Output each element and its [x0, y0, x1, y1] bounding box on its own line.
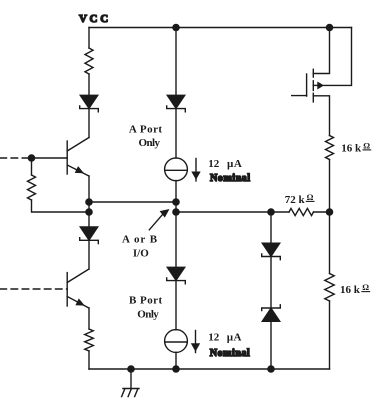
- wire: Q1 emitter down to node: [88, 176, 90, 212]
- svg-text:12: 12: [208, 332, 220, 344]
- underline of upper 16k Ohm superscript: [363, 149, 371, 151]
- label: A Port Only: [129, 124, 163, 149]
- node: ground tap: [127, 365, 135, 373]
- wire: I/O node down to D4: [175, 212, 177, 267]
- current source CS2 (B port 12uA): [165, 330, 188, 353]
- label: 16 kOhm upper: [341, 140, 370, 154]
- node: right-diode branch junction: [267, 208, 275, 216]
- svg-text:Nominal: Nominal: [210, 173, 251, 184]
- wire: D1 to Q1 collector: [88, 109, 90, 138]
- label: B Port Only: [129, 294, 163, 320]
- transistor Q2 (lower NPN): [67, 269, 89, 308]
- wire: R3 to bottom rail: [88, 351, 90, 369]
- label: 16 kOhm lower: [340, 282, 369, 296]
- diode D5 (ESD clamp down): [262, 243, 281, 260]
- wire: cross-connect left to middle at y202: [89, 201, 176, 203]
- transistor Q1 (upper NPN): [67, 138, 89, 177]
- wire: CS1 to I/O node: [175, 181, 177, 203]
- wire: D5 to D6: [270, 257, 272, 309]
- node: middle column at y202: [172, 198, 180, 206]
- svg-text:Ω: Ω: [363, 140, 370, 150]
- diode D4 (B port clamp): [167, 267, 186, 284]
- label: A or B I/O: [122, 234, 158, 260]
- resistor R3 (emitter degeneration): [85, 329, 94, 351]
- svg-text:16 k: 16 k: [340, 284, 361, 296]
- svg-text:Only: Only: [139, 137, 161, 149]
- current source CS1 (A port 12uA): [165, 158, 188, 181]
- wire: I/O node to 72k resistor: [176, 211, 289, 213]
- wire: R4 to mid junction: [329, 160, 331, 213]
- wire: CS2 to bottom rail: [175, 352, 177, 369]
- label: 12 uA (A port): [208, 158, 242, 170]
- svg-text:72 k: 72 k: [285, 194, 306, 206]
- wire: bottom ground rail: [89, 368, 330, 370]
- arrow: A or B I/O pointer: [149, 209, 169, 230]
- wire: left node down to D2: [88, 212, 90, 227]
- ground symbol: [122, 369, 139, 397]
- svg-text:V C C: V C C: [79, 13, 108, 25]
- svg-text:µ A: µ A: [227, 158, 242, 170]
- svg-text:B Port: B Port: [129, 294, 163, 306]
- resistor R4 16k (upper): [326, 136, 334, 160]
- node: left column at y202: [85, 198, 93, 206]
- diode D2 (left lower clamp): [80, 227, 99, 244]
- svg-text:Nominal: Nominal: [210, 348, 251, 359]
- resistor R1 (left pull-up): [85, 48, 93, 74]
- node: top rail A-branch junction: [172, 24, 180, 32]
- wire: top rail down to D3: [175, 28, 177, 96]
- diode D3 (A port clamp to VCC): [167, 95, 186, 112]
- wire: R2 bottom to left node: [32, 200, 90, 212]
- label: 72 kOhm: [285, 192, 314, 206]
- svg-text:µ A: µ A: [227, 332, 242, 344]
- wire: 72k to right column: [314, 211, 330, 213]
- svg-text:A Port: A Port: [129, 124, 163, 136]
- transistor M1 (MOSFET): [292, 28, 352, 136]
- svg-text:Only: Only: [137, 308, 159, 320]
- svg-text:12: 12: [208, 158, 220, 170]
- wire: middle column y202 to y212: [175, 202, 177, 212]
- wire: dashed input to Q1 base: [0, 157, 32, 159]
- resistor R5 16k (lower): [325, 274, 334, 302]
- node: middle column at y212 (I/O node): [172, 208, 180, 216]
- node: middle column bottom junction: [172, 365, 180, 373]
- diode D1 (left clamp to VCC): [80, 95, 99, 112]
- arrow: CS2 current direction: [191, 331, 200, 353]
- wire: D4 to current source CS2: [175, 281, 177, 330]
- wire: R1 to D1: [88, 74, 90, 95]
- wire: R5 to bottom rail: [329, 301, 331, 369]
- wire: base node down to R2: [31, 158, 33, 175]
- underline of 72k Ohm superscript: [306, 200, 314, 202]
- node: right column mid junction: [326, 208, 334, 216]
- wire: mid junction to R5: [329, 212, 331, 274]
- svg-text:Ω: Ω: [362, 282, 369, 292]
- diode D6 (ESD clamp up): [262, 305, 281, 322]
- resistor R6 72k: [289, 208, 314, 215]
- wire: Q1 base lead: [32, 157, 68, 159]
- svg-text:Ω: Ω: [307, 192, 314, 202]
- underline of lower 16k Ohm superscript: [362, 291, 370, 293]
- node: top rail MOSFET junction: [326, 24, 334, 32]
- node: Q1 base junction: [28, 154, 36, 162]
- wire: branch node down to D5: [270, 212, 272, 243]
- svg-text:I/O: I/O: [133, 248, 149, 260]
- svg-text:16 k: 16 k: [341, 142, 362, 154]
- wire: left column from VCC rail down to R1: [88, 28, 90, 49]
- wire: Q2 emitter down to R3: [88, 308, 90, 329]
- wire: D6 to bottom rail: [270, 321, 272, 369]
- arrow: CS1 current direction: [191, 159, 200, 182]
- node: right diode bottom junction: [267, 365, 275, 373]
- resistor R2 (base pulldown): [28, 175, 36, 200]
- label: 12 uA (B port): [208, 332, 241, 344]
- wire: dashed input to Q2 base: [0, 288, 67, 290]
- wire: D3 to current source CS1: [175, 109, 177, 158]
- wire: D2 to Q2 collector: [88, 240, 90, 269]
- node: left column at y212: [85, 208, 93, 216]
- wire: VCC top rail: [89, 27, 352, 29]
- svg-text:A or B: A or B: [122, 234, 158, 246]
